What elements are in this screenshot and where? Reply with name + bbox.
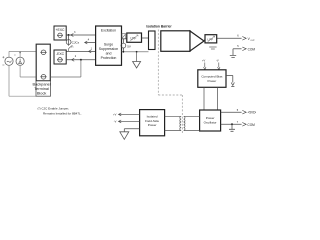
sensor source V2 (right circle) xyxy=(16,57,24,65)
svg-text:(*): (*) xyxy=(71,47,74,49)
wire +5VDC xyxy=(221,111,242,113)
isolated field side power box xyxy=(140,110,165,136)
svg-text:3: 3 xyxy=(74,31,76,34)
svg-text:Power: Power xyxy=(148,123,157,127)
node dot +EXC xyxy=(68,34,70,36)
svg-text:OUT: OUT xyxy=(250,40,255,42)
svg-text:and: and xyxy=(106,52,112,56)
svg-text:+5VDC: +5VDC xyxy=(247,111,256,115)
output amplifier triangle xyxy=(190,31,204,51)
svg-text:Remains Installed for 8B47L.: Remains Installed for 8B47L. xyxy=(43,111,82,115)
wire -EXC pin 2 xyxy=(66,59,95,61)
svg-text:Block: Block xyxy=(37,90,47,95)
+EXC terminal box xyxy=(54,26,66,40)
svg-text:5V: 5V xyxy=(127,45,131,49)
pin arrow Vout xyxy=(242,37,246,41)
pin arrow 3 xyxy=(71,34,74,37)
svg-text:Protection: Protection xyxy=(101,56,117,60)
svg-text:-V: -V xyxy=(114,120,117,124)
sensor source V1 (left circle) xyxy=(5,57,13,65)
LPF2 adjust arrow xyxy=(208,36,215,42)
wire CJC to module pin 4 xyxy=(85,42,96,44)
power transformer T1 left winding xyxy=(165,116,182,130)
svg-text:Isolated: Isolated xyxy=(147,114,158,118)
terminal T2 xyxy=(40,75,46,80)
field power ground wire xyxy=(124,129,139,132)
svg-text:6: 6 xyxy=(237,35,239,38)
wire CBP to power converter left xyxy=(203,87,205,110)
terminal block inner border xyxy=(36,44,50,81)
svg-text:Surge: Surge xyxy=(104,43,113,47)
wire to LPF1 xyxy=(122,38,127,40)
svg-text:Power: Power xyxy=(208,79,217,83)
pin arrow COM xyxy=(242,47,246,51)
CBP ground stub xyxy=(226,76,234,87)
-EXC terminal box xyxy=(54,50,66,64)
svg-text:Field-Side: Field-Side xyxy=(145,119,159,123)
chopper symbol xyxy=(122,34,126,39)
COM bottom ground xyxy=(229,124,235,131)
pin arrow 1 xyxy=(89,50,92,53)
svg-text:(*) CJC Enable Jumper,: (*) CJC Enable Jumper, xyxy=(38,107,70,111)
polarity marks xyxy=(2,55,15,65)
svg-text:Computed Bias: Computed Bias xyxy=(201,75,223,79)
pin arrow COM bottom xyxy=(242,123,246,127)
svg-text:Excitation: Excitation xyxy=(101,28,116,32)
svg-text:5: 5 xyxy=(237,109,239,112)
wire sensor bottom rail xyxy=(9,65,36,96)
label backpanel terminal block xyxy=(33,82,51,96)
backpanel terminal block box xyxy=(36,44,51,96)
wire COM bottom xyxy=(221,123,242,125)
wire CBP to power converter right xyxy=(217,87,219,110)
svg-text:1: 1 xyxy=(91,47,93,50)
svg-text:Isolation Barrier: Isolation Barrier xyxy=(146,25,172,29)
pin arrow 4 xyxy=(85,41,88,44)
-EXC screw terminal xyxy=(57,58,63,62)
wire node to CJC sensor xyxy=(68,35,70,40)
svg-text:4: 4 xyxy=(88,38,90,41)
pin arrow +5VDC xyxy=(242,110,246,114)
node dot gnd rail xyxy=(136,51,138,53)
wire sensor top rail xyxy=(9,51,36,57)
svg-text:Suppression: Suppression xyxy=(99,47,119,51)
wire LPF1 to transformer xyxy=(142,37,149,39)
CJC sensor circle xyxy=(66,40,71,45)
svg-text:-EXC: -EXC xyxy=(56,52,65,56)
pin arrow 2 xyxy=(72,58,75,61)
wire to field ground xyxy=(136,52,138,62)
node dot sensor return xyxy=(80,59,82,61)
wire COM out xyxy=(233,48,242,50)
svg-text:2: 2 xyxy=(75,55,77,58)
svg-text:COM: COM xyxy=(248,47,256,51)
junction arrow sensor rail xyxy=(19,51,21,53)
power oscillator box xyxy=(200,110,221,131)
computed bias power box xyxy=(198,70,226,88)
LPF1 adjust arrow xyxy=(130,35,138,41)
svg-text:-V: -V xyxy=(216,59,219,63)
signal transformer primary bar xyxy=(149,31,156,50)
svg-text:7: 7 xyxy=(237,121,239,124)
terminal T1 xyxy=(40,50,46,55)
wire pin 1 rail xyxy=(67,50,96,52)
wire Vout xyxy=(217,37,242,39)
svg-text:+V: +V xyxy=(113,113,117,117)
node dot COM bottom xyxy=(231,123,233,125)
+EXC screw terminal xyxy=(57,33,63,37)
5V reference source xyxy=(121,39,126,52)
wire amp to LPF2 xyxy=(204,39,205,41)
jumper (*) on CJC line xyxy=(69,44,73,51)
svg-text:5: 5 xyxy=(237,45,239,48)
ground bars under LPF2 xyxy=(209,47,216,49)
wire sensor return riser xyxy=(50,60,81,77)
power transformer T1 right winding xyxy=(184,116,200,130)
svg-text:CJCs: CJCs xyxy=(72,40,80,44)
svg-text:+V: +V xyxy=(202,59,206,63)
field power ground triangle xyxy=(120,132,129,140)
LPF1 box xyxy=(127,33,142,42)
svg-text:COM: COM xyxy=(247,123,255,127)
LPF2 box xyxy=(205,35,217,43)
excitation surge suppression box U1 xyxy=(96,26,122,65)
node dot 5V rail xyxy=(123,51,125,53)
wire +EXC to node xyxy=(66,34,95,36)
svg-text:+EXC: +EXC xyxy=(56,28,66,32)
COM ground xyxy=(230,49,236,58)
svg-text:Oscillator: Oscillator xyxy=(204,121,217,125)
svg-text:Power: Power xyxy=(206,116,215,120)
demodulator box xyxy=(161,31,190,52)
isolation barrier dashed line upper xyxy=(158,30,182,135)
common rail field side xyxy=(122,51,149,53)
field ground triangle xyxy=(133,62,141,69)
